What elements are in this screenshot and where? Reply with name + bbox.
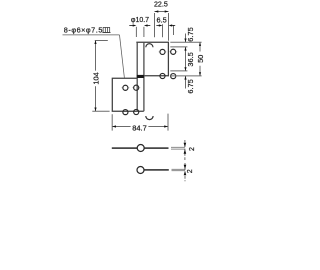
dimension line 50: [199, 42, 201, 51]
left ext line bottom: [92, 110, 109, 112]
side view row2 knuckle circle: [137, 167, 144, 174]
right ext line bottom edge: [170, 75, 201, 77]
hole A3: [160, 73, 165, 78]
extension stub phi10.7 right: [143, 27, 145, 37]
svg-text:6.75: 6.75: [186, 27, 195, 41]
svg-text:6.5: 6.5: [157, 16, 167, 25]
hole B2: [134, 85, 139, 90]
extension stub phi10.7 left: [135, 27, 137, 37]
dimension line 6.75/36.5 chain at x=185.4: [185, 34, 187, 43]
leaf B outline (lower left plate): [112, 78, 144, 111]
hole centerline ticks: [121, 52, 177, 88]
extension line hole col1: [162, 24, 164, 37]
knuckle barrel left line: [136, 42, 138, 111]
hole A4: [171, 74, 176, 79]
svg-text:104: 104: [91, 72, 100, 84]
hole A1: [160, 49, 165, 54]
right ext line mid: [170, 70, 187, 72]
dimension line 84.7: [112, 126, 130, 128]
leader underline: [63, 34, 120, 36]
curl arc top (leaf A): [146, 44, 153, 48]
right ext line top edge: [170, 41, 201, 43]
row1 arrow top: [184, 143, 187, 147]
bottom ext line right: [167, 114, 169, 131]
arrow 6.5 right (pointing left): [172, 25, 175, 27]
svg-text:50: 50: [196, 55, 205, 63]
arrow 22.5 right: [165, 10, 169, 12]
leaf A outline (upper right plate): [136, 42, 168, 75]
leader diagonal: [120, 35, 125, 78]
row2 dashed dimension axis: [184, 163, 186, 181]
curl arc bottom: [146, 116, 153, 120]
svg-text:6.75: 6.75: [186, 79, 195, 93]
extension line right edge (22.5/6.5 right): [168, 13, 170, 41]
dimension line 22.5: [155, 11, 169, 13]
bottom ext line left: [111, 114, 113, 130]
svg-text:84.7: 84.7: [132, 123, 147, 132]
knuckle junction black square: [137, 75, 144, 78]
svg-text:8-φ6×φ7.5: 8-φ6×φ7.5: [64, 26, 103, 35]
svg-text:2: 2: [189, 147, 196, 151]
row1 surface ext lines: [171, 146, 185, 148]
svg-text:22.5: 22.5: [154, 1, 168, 9]
hole B3: [123, 110, 128, 115]
row2 arrow bottom: [184, 171, 187, 175]
arrow 22.5 left: [155, 10, 159, 12]
row1 arrow bottom: [184, 149, 187, 153]
row2 arrow top: [184, 165, 187, 169]
left ext line top: [95, 40, 108, 42]
arrow phi10.7 left (pointing right): [129, 25, 133, 27]
svg-text:φ10.7: φ10.7: [131, 17, 149, 24]
row2 surface ext lines: [172, 168, 186, 170]
right ext line arc center: [170, 46, 187, 48]
countersink symbol: [102, 28, 110, 33]
knuckle barrel right line: [143, 42, 145, 111]
side view row2 plate bar: [144, 169, 169, 171]
svg-text:36.5: 36.5: [186, 52, 195, 66]
extension stub hole col2: [173, 25, 175, 35]
side view row1 plate bar: [112, 147, 169, 149]
row1 dashed dimension axis: [184, 140, 186, 160]
dimension line 104: [95, 41, 97, 71]
arrow phi10.7 right (pointing left): [147, 25, 150, 27]
hole B4: [134, 109, 139, 114]
svg-text:2: 2: [185, 169, 194, 173]
arrow 6.5 left (pointing right): [156, 25, 159, 27]
hole B1: [123, 85, 128, 90]
hole A2: [171, 49, 176, 54]
side view row1 knuckle circle: [137, 145, 144, 152]
extension line 22.5 left: [154, 13, 156, 37]
